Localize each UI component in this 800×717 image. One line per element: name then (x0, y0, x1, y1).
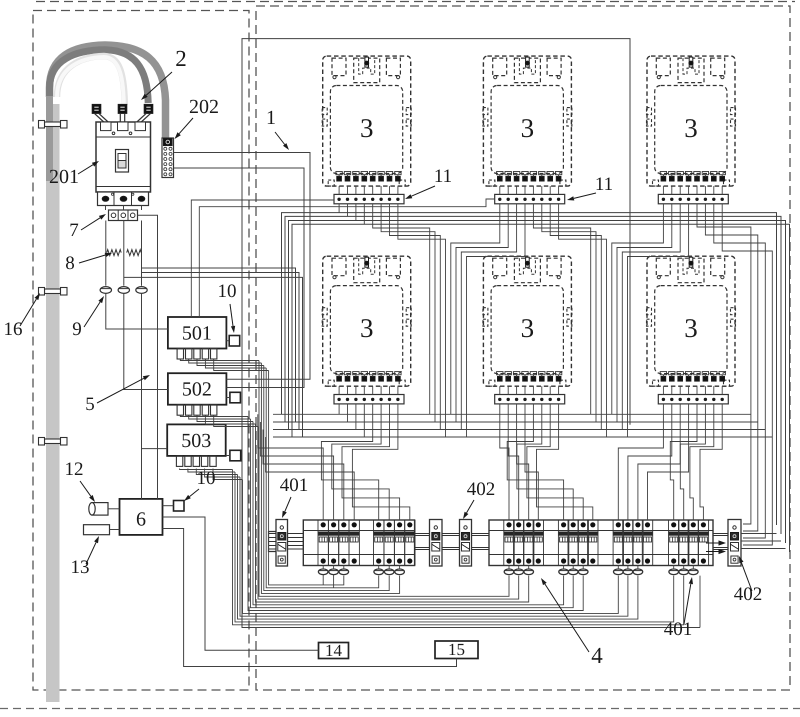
svg-text:15: 15 (448, 640, 465, 659)
svg-text:2: 2 (175, 46, 187, 71)
svg-text:12: 12 (65, 459, 84, 480)
svg-text:202: 202 (189, 96, 219, 118)
svg-text:401: 401 (664, 619, 693, 640)
svg-text:502: 502 (182, 379, 212, 401)
svg-text:6: 6 (136, 509, 146, 531)
svg-text:3: 3 (684, 313, 698, 343)
svg-text:3: 3 (684, 113, 698, 143)
svg-text:3: 3 (521, 113, 535, 143)
svg-text:503: 503 (181, 430, 211, 452)
svg-text:3: 3 (521, 313, 535, 343)
svg-text:9: 9 (72, 319, 82, 340)
svg-text:14: 14 (325, 641, 343, 660)
svg-text:1: 1 (266, 107, 276, 129)
svg-text:402: 402 (734, 584, 763, 605)
svg-text:402: 402 (467, 479, 496, 500)
svg-text:401: 401 (280, 475, 309, 496)
svg-text:10: 10 (197, 468, 216, 489)
svg-text:4: 4 (591, 643, 603, 668)
svg-text:3: 3 (360, 113, 374, 143)
svg-text:501: 501 (182, 323, 212, 345)
svg-text:3: 3 (360, 313, 374, 343)
svg-text:5: 5 (85, 394, 95, 415)
svg-text:201: 201 (49, 166, 79, 188)
svg-text:7: 7 (69, 220, 79, 241)
svg-text:16: 16 (4, 319, 23, 340)
svg-text:10: 10 (218, 281, 237, 302)
svg-text:11: 11 (434, 166, 452, 187)
svg-text:11: 11 (595, 174, 613, 195)
svg-text:8: 8 (65, 253, 75, 274)
svg-text:13: 13 (71, 557, 90, 578)
